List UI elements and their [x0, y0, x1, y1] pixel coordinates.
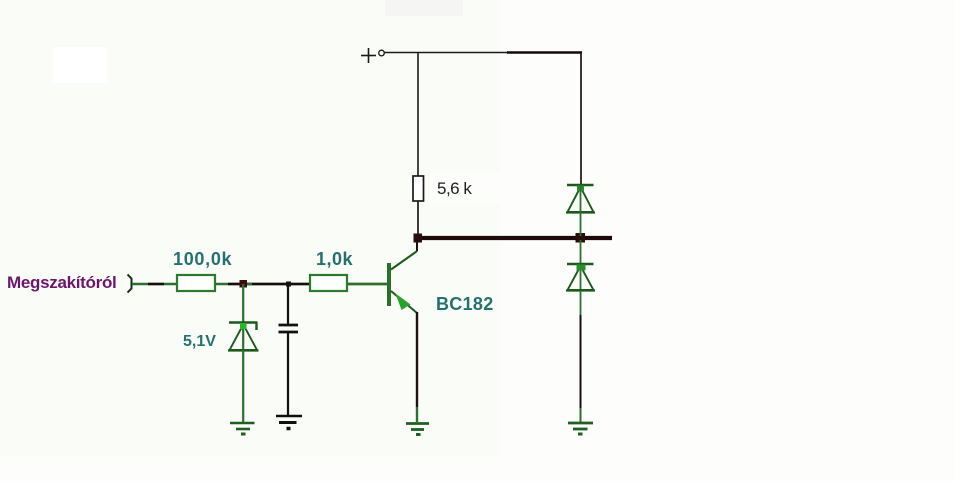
- wire: top rail: [385, 52, 583, 54]
- wire: zener to ground: [242, 350, 244, 422]
- wire: capacitor to ground: [287, 333, 289, 415]
- wire: bus to D3: [580, 240, 582, 291]
- resistor R3: [413, 176, 424, 201]
- resistor R2: [310, 275, 347, 291]
- diode D3 (bottom): [566, 264, 595, 291]
- zener diode D1 5,1V: [228, 323, 259, 351]
- svg-text:100,0k: 100,0k: [173, 249, 233, 269]
- wire: R2 to Q1 base: [348, 283, 388, 286]
- wire: bus (thick output net): [415, 236, 612, 240]
- ground (emitter): [406, 424, 429, 435]
- junction on bus at diodes: [576, 233, 586, 243]
- resistor R1: [177, 275, 215, 291]
- svg-text:1,0k: 1,0k: [316, 249, 354, 269]
- ground (zener): [230, 423, 255, 434]
- wire: Q1 emitter down: [416, 312, 418, 422]
- ground (diode string): [568, 423, 593, 434]
- svg-text:BC182: BC182: [436, 294, 494, 314]
- transistor Q1 BC182: [387, 252, 417, 314]
- junction node (zener tap): [240, 280, 248, 288]
- svg-text:5,1V: 5,1V: [183, 333, 216, 350]
- svg-text:Megszakítóról: Megszakítóról: [7, 273, 116, 292]
- capacitor C1: [279, 284, 299, 332]
- diode D2 (top, LED string): [566, 185, 595, 213]
- wire: junction down to zener: [242, 284, 244, 351]
- input connector (from breaker): [128, 275, 132, 293]
- wire: D2 to bus: [580, 186, 582, 236]
- junction on bus at R3/collector: [414, 234, 423, 243]
- wire: input to R1: [132, 283, 176, 286]
- wire: R1 to R2 (base net): [215, 283, 309, 286]
- wire: R3 to bus: [417, 201, 419, 237]
- wire: rail down to R3: [417, 53, 419, 177]
- terminal + (positive supply): [361, 48, 384, 63]
- wire: D3 to ground: [580, 291, 582, 422]
- svg-text:5,6 k: 5,6 k: [437, 179, 472, 198]
- junction (capacitor tap): [286, 282, 291, 287]
- ground (capacitor): [276, 416, 302, 429]
- wire: top rail down to D2: [580, 53, 582, 185]
- wire: Q1 collector to bus: [416, 238, 418, 252]
